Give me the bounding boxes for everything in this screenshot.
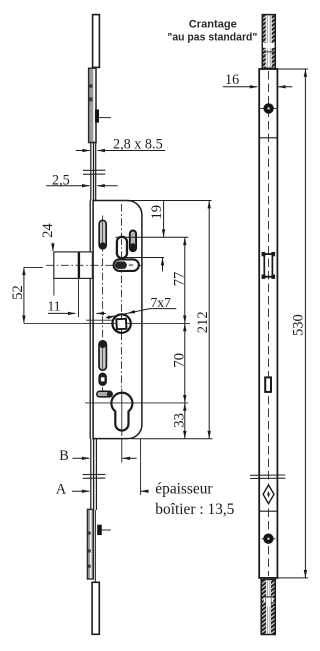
gray rail bar lower (edge view) — [87, 509, 93, 579]
dim A — [56, 482, 149, 498]
bottom notched rod — [261, 580, 275, 635]
dim 11 — [48, 279, 106, 317]
slot bottom horizontal pill — [97, 391, 112, 397]
svg-text:530: 530 — [291, 314, 307, 336]
wire pointer upper — [99, 117, 111, 119]
svg-text:11: 11 — [48, 299, 61, 314]
ext case bottom — [131, 438, 213, 440]
svg-text:Crantage: Crantage — [189, 19, 237, 31]
break marks upper — [83, 169, 105, 171]
break marks right — [250, 474, 285, 476]
node cam marker upper — [95, 110, 99, 123]
dim 24 — [40, 223, 56, 252]
dim 212 — [195, 201, 211, 439]
dim B — [59, 448, 137, 464]
centerline rail axis — [268, 71, 270, 576]
lock case outline — [93, 201, 142, 439]
centerline horizontal follower axis — [46, 264, 144, 266]
wire top drive rod (edge view, white) — [93, 15, 100, 68]
svg-text:16: 16 — [225, 72, 239, 88]
dim 77 — [172, 237, 188, 323]
slot lower long — [99, 341, 106, 370]
dim 2,8 x 8.5 — [76, 137, 166, 153]
svg-text:boîtier : 13,5: boîtier : 13,5 — [155, 501, 234, 518]
slot hook top-right — [130, 231, 136, 252]
bracket I-profile — [262, 252, 276, 279]
centerline vertical slots column — [102, 216, 104, 398]
svg-text:B: B — [59, 448, 68, 464]
euro cylinder hole — [111, 393, 132, 431]
svg-text:19: 19 — [149, 205, 165, 220]
centerline vertical case axis — [121, 204, 123, 389]
slot latch guide vertical — [117, 237, 127, 258]
wire spindle axis horizontal — [24, 322, 190, 324]
node diamond mark — [263, 485, 274, 504]
ext euro axis B — [121, 439, 123, 463]
wire faceplate lines below case — [90, 439, 92, 510]
node rivet upper — [260, 103, 278, 113]
dim 19 — [149, 201, 165, 272]
svg-text:24: 24 — [40, 223, 56, 238]
wire pointer lower — [102, 529, 111, 531]
wire bottom drive rod (edge view, white) — [92, 582, 99, 634]
gray rail bar upper (edge view) — [89, 68, 97, 142]
wire faceplate lines (between bar and case) — [90, 142, 92, 201]
dim 530 — [291, 69, 308, 578]
main rail body — [259, 69, 277, 578]
dim 16 — [223, 72, 292, 88]
slot latch guide horizontal — [114, 259, 139, 271]
wire faceplate lines through case region — [89, 201, 91, 439]
slot lower small — [99, 373, 106, 385]
ext rail top / bottom for 530 — [277, 68, 308, 70]
crantage notched rod — [262, 15, 275, 69]
ext slot plane upper — [116, 236, 189, 238]
follower nose box — [54, 252, 93, 279]
wire spindle stub upper — [86, 319, 113, 321]
svg-text:7x7: 7x7 — [151, 295, 172, 310]
node rivet lower — [262, 534, 276, 544]
ext slot plane lower — [125, 257, 165, 259]
node cam marker lower — [97, 525, 102, 535]
ext case top — [128, 200, 212, 202]
dim 33 — [172, 403, 188, 439]
wire euro axis vertical — [121, 389, 123, 437]
slot hook top-left — [99, 220, 106, 249]
dim 7x7 leader — [106, 295, 177, 319]
svg-text:"au pas standard": "au pas standard" — [167, 31, 257, 43]
dim 52 — [10, 267, 43, 323]
ext case face A — [140, 439, 142, 495]
spindle hub 7x7 — [112, 314, 130, 332]
wire euro axis horizontal — [85, 402, 188, 404]
svg-text:A: A — [56, 482, 67, 498]
dim 70 — [172, 323, 188, 402]
wire centerline through latch guide — [121, 239, 123, 257]
break marks lower — [83, 473, 106, 475]
dim 2,5 — [46, 172, 117, 188]
svg-text:épaisseur: épaisseur — [155, 481, 212, 498]
slot small rect — [265, 377, 271, 392]
